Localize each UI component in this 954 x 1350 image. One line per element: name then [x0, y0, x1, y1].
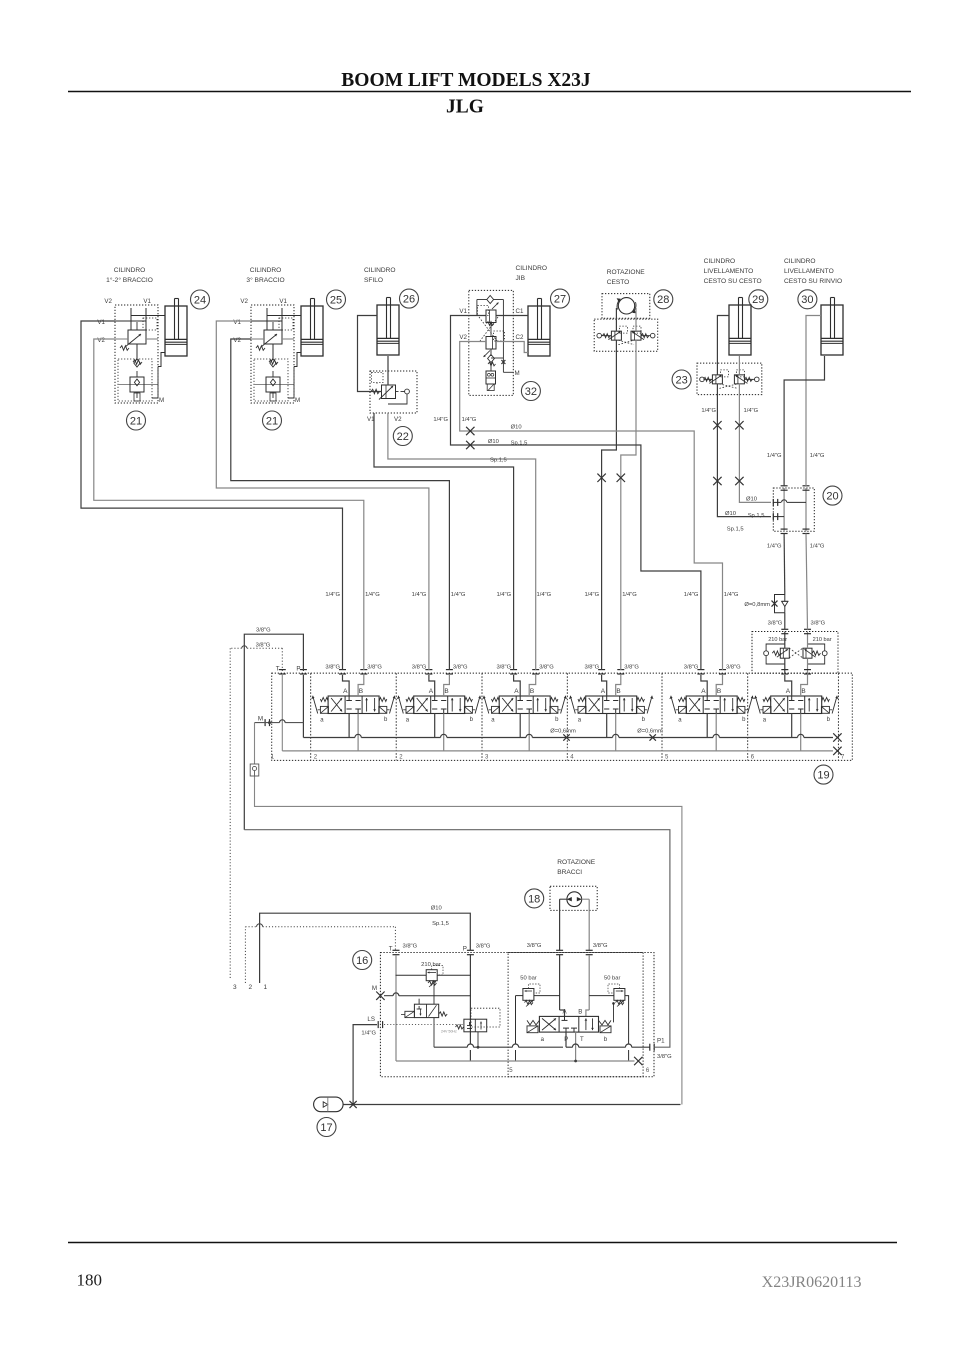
svg-text:C2: C2 [516, 334, 524, 341]
svg-text:3/8"G: 3/8"G [412, 664, 427, 670]
svg-text:T: T [389, 946, 393, 953]
svg-text:CESTO SU CESTO: CESTO SU CESTO [704, 278, 762, 285]
svg-text:3/8"G: 3/8"G [527, 943, 542, 949]
valve block 32 (jib) dashed enclosure [469, 290, 514, 395]
valve 3 (sfilo) port B riser [529, 675, 536, 696]
svg-text:T: T [276, 666, 280, 673]
svg-text:M: M [372, 985, 377, 992]
svg-text:1/4"G: 1/4"G [622, 592, 637, 598]
svg-text:A: A [343, 688, 348, 695]
svg-text:1/4"G: 1/4"G [701, 408, 716, 414]
svg-text:B: B [359, 688, 363, 695]
svg-text:CILINDRO: CILINDRO [364, 267, 396, 274]
svg-text:Ø=0,6mm: Ø=0,6mm [550, 729, 576, 735]
balloon 25 [327, 290, 346, 309]
valve block 22 (sfilo) dashed enclosure [370, 371, 417, 413]
wire cyl30 bottom port to block20 left line [784, 356, 824, 486]
svg-text:CILINDRO: CILINDRO [250, 267, 282, 274]
valve 3 (sfilo) (4/3 DCV) [492, 698, 500, 702]
wire cyl29 top port to block23 [717, 316, 729, 375]
svg-text:M: M [295, 397, 300, 404]
valve 6 (livellamento) A drain to bus [791, 714, 793, 738]
pump 17 [314, 1097, 344, 1112]
wire bank P down to P1 feed corner [244, 634, 303, 830]
svg-text:P: P [463, 946, 467, 953]
svg-text:SFILO: SFILO [364, 277, 383, 284]
valve 3 (sfilo) A drain to bus [519, 714, 521, 738]
balloon 16 [353, 951, 372, 970]
bank section divider [566, 673, 568, 760]
svg-text:M: M [515, 370, 520, 377]
balloon 21 [127, 411, 146, 430]
bank section divider [395, 673, 397, 760]
balloon 21 [263, 411, 282, 430]
valve 2 (3 braccio) port A riser [429, 675, 435, 696]
balloon 26 [400, 289, 419, 308]
bank section divider [747, 673, 749, 760]
balloon 28 [654, 290, 673, 309]
svg-text:27: 27 [554, 294, 566, 306]
svg-text:Ø10: Ø10 [725, 511, 736, 517]
svg-text:24V 50Hz: 24V 50Hz [441, 1030, 457, 1034]
wire sfilo V2 to valve3 B [388, 413, 536, 670]
balloon 17 [317, 1118, 336, 1137]
svg-text:V2: V2 [459, 334, 467, 341]
svg-text:V2: V2 [240, 298, 248, 305]
svg-text:V1: V1 [143, 298, 151, 305]
rotation section: 3/8G ticks [556, 949, 563, 951]
svg-text:2: 2 [249, 984, 253, 991]
svg-text:1/4"G: 1/4"G [325, 592, 340, 598]
svg-text:3/8"G: 3/8"G [593, 943, 608, 949]
svg-text:1/4"G: 1/4"G [810, 544, 825, 550]
wire rotazione cesto right to valve4 B [621, 340, 636, 670]
svg-text:1/4"G: 1/4"G [361, 1031, 376, 1037]
valve 2 (3 braccio) B drain to lower bus [443, 714, 445, 751]
svg-text:B: B [717, 688, 721, 695]
svg-text:P: P [296, 666, 300, 673]
svg-text:21: 21 [266, 415, 278, 427]
balloon 23 [672, 370, 691, 389]
cylinder 30 (livellamento cesto su rinvio) [821, 305, 843, 355]
svg-text:1/4"G: 1/4"G [767, 544, 782, 550]
wire block21b V2 to valve2 B [231, 339, 450, 670]
block 22 internals [382, 385, 396, 399]
block16 port P [467, 949, 474, 951]
svg-text:210 bar: 210 bar [813, 637, 832, 643]
svg-text:3/8"G: 3/8"G [768, 621, 783, 627]
wire rotazione cesto left to valve4 A [602, 340, 617, 670]
svg-text:210 bar: 210 bar [421, 962, 441, 968]
svg-text:Sp.1,5: Sp.1,5 [432, 921, 449, 927]
valve 6 (livellamento) (4/3 DCV) [763, 698, 771, 702]
wire sfilo V1 to valve3 A [374, 413, 514, 670]
svg-text:24: 24 [194, 294, 206, 306]
valve 5 (jib) B drain to lower bus [715, 714, 717, 751]
svg-text:T: T [580, 1037, 584, 1043]
block 32 internals [487, 296, 494, 304]
relief cartridge right 210bar [803, 648, 812, 658]
svg-text:20: 20 [826, 491, 838, 503]
valve 4 (rotazione cesto) port A riser [602, 675, 607, 696]
svg-text:1: 1 [264, 984, 268, 991]
svg-text:1/4"G: 1/4"G [451, 592, 466, 598]
svg-text:BRACCI: BRACCI [557, 869, 582, 876]
svg-text:Ø10: Ø10 [746, 497, 757, 503]
valve 1 (1-2 braccio) (4/3 DCV) [320, 698, 328, 702]
wire cyl26 bottom to block 22 [387, 356, 389, 385]
svg-text:V2: V2 [97, 337, 105, 344]
relief cartridge left 210bar [780, 648, 789, 658]
svg-text:CESTO SU RINVIO: CESTO SU RINVIO [784, 278, 842, 285]
footer rule [68, 1242, 897, 1244]
wire bank M to test point and pump line [254, 723, 256, 764]
svg-text:3/8"G: 3/8"G [496, 664, 511, 670]
svg-text:50 bar: 50 bar [520, 976, 537, 982]
svg-text:50 bar: 50 bar [604, 976, 621, 982]
svg-text:17: 17 [320, 1122, 332, 1134]
svg-text:3/8"G: 3/8"G [539, 664, 554, 670]
main valve bank dashed enclosure [272, 673, 853, 760]
svg-text:V2: V2 [394, 416, 402, 423]
balloon 30 [798, 290, 817, 309]
svg-text:1/4"G: 1/4"G [496, 592, 511, 598]
svg-text:28: 28 [657, 294, 669, 306]
valve 5 (jib) (4/3 DCV) [679, 698, 687, 702]
svg-text:23: 23 [675, 374, 687, 386]
orifice 0,8mm with check bypass [775, 595, 785, 613]
svg-text:3/8"G: 3/8"G [811, 621, 826, 627]
cylinder 25 (3 braccio) [301, 306, 323, 356]
svg-text:1/4"G: 1/4"G [684, 592, 699, 598]
bank lower bus [282, 750, 833, 752]
block16 solenoid unloader valve [414, 1004, 438, 1017]
svg-text:V1: V1 [97, 319, 105, 326]
block 21 3 braccio internals [266, 308, 268, 316]
hose line 1 to block16 P [260, 913, 471, 983]
balloon 19 [814, 765, 833, 784]
block16 pressure compensator [471, 1008, 500, 1027]
svg-text:B: B [801, 688, 805, 695]
relief block vertical lines [784, 632, 786, 649]
svg-text:M: M [258, 716, 263, 723]
valve 2 (3 braccio) A drain to bus [434, 714, 436, 738]
svg-text:A: A [786, 688, 791, 695]
wire block21a V1 to valve1 A [81, 321, 343, 670]
test point gauge [250, 764, 259, 776]
svg-text:Sp.1,5: Sp.1,5 [727, 527, 744, 533]
header rule [68, 91, 911, 93]
svg-text:LIVELLAMENTO: LIVELLAMENTO [784, 268, 834, 275]
svg-text:Ø=0,8mm: Ø=0,8mm [744, 602, 770, 608]
valve 6 (livellamento) port B riser [801, 675, 808, 696]
svg-text:30: 30 [801, 294, 813, 306]
svg-text:Ø10: Ø10 [511, 425, 522, 431]
svg-text:A: A [514, 688, 519, 695]
svg-text:ROTAZIONE: ROTAZIONE [607, 269, 646, 276]
wire cyl30 top port through block20 to relief right [806, 316, 821, 487]
svg-text:19: 19 [817, 770, 829, 782]
bank upper bus (T) [303, 737, 355, 739]
valve 6 (livellamento) B drain to lower bus [800, 714, 802, 751]
svg-text:32: 32 [525, 386, 537, 398]
svg-text:1/4"G: 1/4"G [433, 417, 448, 423]
svg-text:CESTO: CESTO [607, 279, 630, 286]
wire P tee to P1 of block16 [244, 830, 670, 1047]
wire jib V1 to valve5 A [451, 316, 701, 671]
svg-text:3/8"G: 3/8"G [657, 1054, 672, 1060]
svg-text:3/8"G: 3/8"G [726, 664, 741, 670]
svg-text:3: 3 [233, 984, 237, 991]
svg-text:BOOM LIFT MODELS X23J: BOOM LIFT MODELS X23J [341, 70, 591, 91]
wire bank T dotted to bottom [281, 648, 283, 671]
svg-text:Sp.1,5: Sp.1,5 [511, 441, 528, 447]
svg-text:16: 16 [356, 955, 368, 967]
valve 1 (1-2 braccio) port A riser [343, 675, 350, 696]
bank section divider [661, 673, 663, 760]
balloon 22 [393, 427, 412, 446]
valve 4 (rotazione cesto) (4/3 DCV) [578, 698, 586, 702]
svg-text:Ø10: Ø10 [488, 439, 499, 445]
rotation DCV P/T down lines [565, 1032, 567, 1047]
wire cyl29 bottom to block23 [738, 356, 740, 375]
svg-text:25: 25 [330, 294, 342, 306]
svg-text:1/4"G: 1/4"G [537, 592, 552, 598]
valve 2 (3 braccio) port B riser [444, 675, 450, 696]
balloon 29 [749, 290, 768, 309]
svg-text:B: B [616, 688, 620, 695]
valve 5 (jib) port B riser [716, 675, 722, 696]
rotation DCV 4/3 [539, 1016, 598, 1032]
bank section divider [310, 673, 312, 760]
svg-text:3/8"G: 3/8"G [256, 643, 271, 649]
svg-text:Ø=0,6mm: Ø=0,6mm [637, 729, 663, 735]
svg-text:A: A [601, 688, 606, 695]
svg-text:CILINDRO: CILINDRO [516, 265, 548, 272]
svg-text:C1: C1 [516, 308, 524, 315]
bank section divider [481, 673, 483, 760]
valve 3 (sfilo) port A riser [514, 675, 521, 696]
valve block 23 (double counterbalance) [697, 363, 762, 395]
valve 6 (livellamento) port A riser [785, 675, 792, 696]
valve 2 (3 braccio) (4/3 DCV) [406, 698, 414, 702]
pump output line [343, 1104, 680, 1106]
balloon 24 [191, 290, 210, 309]
valve block under motor 28 (double counterbalance) [594, 319, 658, 351]
valve 1 (1-2 braccio) B drain to lower bus [357, 714, 359, 751]
valve block 21 (1-2 braccio) dashed enclosure [115, 305, 158, 403]
svg-text:18: 18 [528, 893, 540, 905]
balloon 27 [551, 289, 570, 308]
svg-text:X23JR0620113: X23JR0620113 [762, 1274, 862, 1291]
svg-text:B: B [578, 1009, 582, 1016]
svg-text:V1: V1 [459, 308, 467, 315]
svg-text:1/4"G: 1/4"G [584, 592, 599, 598]
svg-text:V1: V1 [279, 298, 287, 305]
svg-text:3/8"G: 3/8"G [325, 664, 340, 670]
valve 3 (sfilo) B drain to lower bus [528, 714, 530, 751]
cylinder 29 (livellamento cesto su cesto) [729, 305, 751, 355]
wire block32 C2 to cyl27 bottom port [513, 342, 528, 353]
svg-text:B: B [444, 688, 448, 695]
block16 LS port [377, 1021, 379, 1028]
motor 28 (rotazione cesto) [602, 294, 650, 319]
wire block23 right to block20 [739, 384, 771, 503]
bus orifice 0,6mm #2 [650, 734, 656, 740]
block16 lower bus [396, 1060, 635, 1062]
svg-text:Sp.1,5: Sp.1,5 [490, 458, 507, 464]
svg-text:3/8"G: 3/8"G [367, 664, 382, 670]
valve block 20 dashed enclosure [773, 488, 814, 531]
block 21 1-2 braccio internals [130, 308, 132, 316]
block16 port T [393, 949, 400, 951]
svg-text:3/8"G: 3/8"G [476, 944, 491, 950]
bank port P [300, 669, 307, 671]
svg-text:Sp.1,5: Sp.1,5 [748, 513, 765, 519]
svg-text:3/8"G: 3/8"G [584, 664, 599, 670]
block 20 internals [783, 488, 785, 531]
svg-text:P1: P1 [657, 1038, 665, 1045]
cylinder 26 (sfilo) [377, 305, 399, 355]
valve 4 (rotazione cesto) B drain to lower bus [615, 714, 617, 751]
svg-text:A: A [429, 688, 434, 695]
svg-text:B: B [530, 688, 534, 695]
wire jib V2 to valve5 B [460, 342, 723, 671]
block16 bus P1 [434, 1046, 467, 1048]
wire cyl26 top port to block 22 [358, 316, 383, 392]
svg-text:3/8"G: 3/8"G [256, 628, 271, 634]
valve 5 (jib) port A riser [701, 675, 707, 696]
svg-text:V2: V2 [104, 298, 112, 305]
svg-text:3/8"G: 3/8"G [684, 664, 699, 670]
svg-text:CILINDRO: CILINDRO [704, 258, 736, 265]
svg-text:CILINDRO: CILINDRO [784, 258, 816, 265]
svg-text:3/8"G: 3/8"G [403, 944, 418, 950]
valve 1 (1-2 braccio) A drain to bus [348, 714, 350, 738]
bank port T [279, 669, 286, 671]
wire block23 left to block20 [717, 384, 771, 517]
valve 5 (jib) A drain to bus [706, 714, 708, 738]
svg-text:21: 21 [130, 415, 142, 427]
wire motor28 lines down [615, 308, 617, 331]
svg-text:CILINDRO: CILINDRO [114, 267, 146, 274]
balloon 32 [521, 382, 540, 401]
svg-text:A: A [701, 688, 706, 695]
valve 1 (1-2 braccio) port B riser [358, 675, 364, 696]
svg-text:26: 26 [403, 294, 415, 306]
block16 LS external line to pump [353, 1025, 377, 1105]
relief block (210 bar pair) above section 7 [752, 632, 838, 674]
bank section divider [837, 673, 839, 760]
wire block21a V2 to valve1 B [94, 339, 364, 670]
svg-text:1/4"G: 1/4"G [412, 592, 427, 598]
hose line 2 dotted to block16 T [244, 927, 246, 983]
balloon 20 [823, 486, 842, 505]
wire block20 left line down through orifice to relief left [783, 534, 786, 595]
svg-text:1/4"G: 1/4"G [767, 453, 782, 459]
svg-text:1/4"G: 1/4"G [462, 417, 477, 423]
motor 18 (rotazione bracci) [550, 886, 597, 910]
cylinder 24 (1-2 braccio) [165, 306, 187, 356]
wire motor18 A [560, 898, 567, 900]
valve block 21 (3 braccio) dashed enclosure [251, 305, 294, 403]
svg-text:29: 29 [752, 294, 764, 306]
wire motor18 B [582, 898, 590, 900]
svg-text:V2: V2 [233, 337, 241, 344]
svg-text:1/4"G: 1/4"G [365, 592, 380, 598]
svg-text:Ø10: Ø10 [431, 906, 442, 912]
svg-text:LIVELLAMENTO: LIVELLAMENTO [704, 268, 754, 275]
svg-text:3° BRACCIO: 3° BRACCIO [246, 276, 284, 284]
svg-text:LS: LS [367, 1016, 375, 1023]
bus orifice 0,6mm #1 [563, 734, 569, 740]
bank port M gauge line [264, 719, 266, 726]
bus end plugs [833, 733, 841, 741]
block 16 inner dashed sub-enclosure [508, 953, 643, 1077]
wire block21b V1 to valve2 A [216, 321, 429, 670]
svg-text:ROTAZIONE: ROTAZIONE [557, 859, 596, 866]
svg-text:22: 22 [397, 431, 409, 443]
svg-text:3/8"G: 3/8"G [453, 664, 468, 670]
svg-text:1/4"G: 1/4"G [744, 408, 759, 414]
svg-text:JIB: JIB [516, 275, 526, 282]
block16 M port [376, 992, 384, 1000]
svg-text:M: M [159, 397, 164, 404]
relief block side ports [764, 651, 769, 656]
cylinder 27 (jib) [528, 306, 550, 356]
valve 4 (rotazione cesto) port B riser [616, 675, 621, 696]
svg-text:1/4"G: 1/4"G [724, 592, 739, 598]
valve 4 (rotazione cesto) A drain to bus [606, 714, 608, 738]
svg-text:1°-2° BRACCIO: 1°-2° BRACCIO [106, 276, 153, 284]
block 16 dashed enclosure [380, 953, 654, 1077]
svg-text:3/8"G: 3/8"G [624, 664, 639, 670]
svg-text:1/4"G: 1/4"G [810, 453, 825, 459]
svg-text:180: 180 [77, 1271, 103, 1290]
svg-text:JLG: JLG [446, 97, 484, 118]
svg-text:V1: V1 [233, 319, 241, 326]
balloon 18 [525, 889, 544, 908]
